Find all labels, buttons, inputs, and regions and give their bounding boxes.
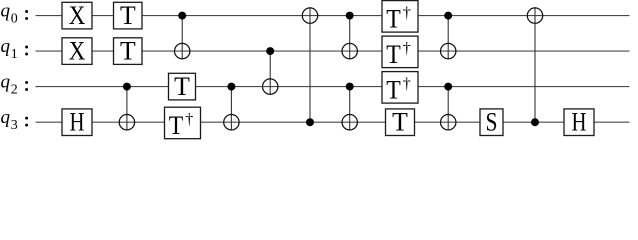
node q3 label bbox=[1, 107, 29, 133]
svg-text:T: T bbox=[120, 1, 136, 30]
svg-text:T: T bbox=[386, 5, 401, 34]
control dot q2 col4 bbox=[227, 83, 235, 91]
gate T q2 col3 bbox=[169, 72, 196, 101]
svg-text:0: 0 bbox=[11, 12, 18, 27]
cnot target q1 col3 bbox=[175, 43, 190, 58]
wire cnot q2-q3 col7 bbox=[349, 87, 351, 131]
cnot target q0 col11 bbox=[527, 8, 542, 23]
wire cnot q3-q0 col11 bbox=[534, 7, 536, 122]
wire q2 bbox=[36, 86, 630, 88]
wire q1 bbox=[36, 50, 630, 52]
gate X q0 col1 bbox=[62, 1, 92, 30]
control dot q2 col7 bbox=[346, 83, 354, 91]
node q2 label bbox=[1, 71, 29, 97]
control dot q1 col5 bbox=[266, 47, 274, 55]
svg-text:T: T bbox=[169, 111, 184, 140]
wire cnot q0-q1 col7 bbox=[349, 16, 351, 60]
cnot target q0 col6 bbox=[302, 8, 317, 23]
svg-text:q: q bbox=[1, 0, 11, 21]
svg-text:1: 1 bbox=[11, 47, 18, 62]
wire cnot q2-q3 col2 bbox=[126, 87, 128, 131]
svg-text:T: T bbox=[386, 40, 401, 69]
cnot target q1 col9 bbox=[441, 43, 456, 58]
wire cnot q0-q1 col3 bbox=[181, 16, 183, 60]
cnot target q3 col2 bbox=[119, 115, 134, 130]
svg-text:S: S bbox=[486, 107, 498, 136]
svg-text:†: † bbox=[403, 40, 411, 57]
wire cnot q2-q3 col9 bbox=[447, 87, 449, 131]
control dot q0 col3 bbox=[178, 12, 186, 20]
control dot q2 col9 bbox=[444, 83, 452, 91]
svg-text:q: q bbox=[1, 36, 11, 57]
svg-text:H: H bbox=[70, 107, 85, 136]
svg-text:X: X bbox=[69, 36, 86, 65]
gate T q1 col2 bbox=[114, 36, 143, 65]
wire cnot q1-q2 col5 bbox=[269, 51, 271, 95]
svg-text:2: 2 bbox=[11, 83, 18, 98]
svg-text:T: T bbox=[120, 36, 136, 65]
gate T q0 col2 bbox=[114, 1, 143, 30]
node q0 label bbox=[1, 0, 29, 26]
wire cnot q0-q1 col9 bbox=[447, 16, 449, 60]
svg-text:†: † bbox=[185, 111, 193, 128]
gate T q3 col8 bbox=[386, 107, 415, 136]
cnot target q2 col5 bbox=[263, 79, 278, 94]
control dot q3 col6 bbox=[306, 118, 314, 126]
cnot target q3 col9 bbox=[441, 115, 456, 130]
control dot q0 col9 bbox=[444, 12, 452, 20]
svg-text:T: T bbox=[386, 76, 401, 105]
control dot q0 col7 bbox=[346, 12, 354, 20]
gate X q1 col1 bbox=[62, 36, 92, 65]
svg-text:q: q bbox=[1, 71, 11, 92]
wire cnot q3-q0 col6 bbox=[309, 7, 311, 122]
gate Tdg q0 col8 bbox=[382, 1, 418, 34]
svg-text:q: q bbox=[1, 107, 11, 128]
gate S q3 col10 bbox=[480, 107, 503, 136]
control dot q2 col2 bbox=[123, 83, 131, 91]
svg-text:T: T bbox=[174, 72, 190, 101]
svg-text:†: † bbox=[403, 5, 411, 22]
gate Tdg q3 col3 bbox=[165, 107, 201, 140]
node q1 label bbox=[1, 36, 29, 62]
gate H q3 col12 bbox=[564, 107, 594, 136]
gate Tdg q1 col8 bbox=[382, 36, 418, 69]
gate H q3 col1 bbox=[62, 107, 92, 136]
control dot q3 col11 bbox=[531, 118, 539, 126]
cnot target q1 col7 bbox=[342, 43, 357, 58]
svg-text:X: X bbox=[69, 1, 86, 30]
cnot target q3 col4 bbox=[224, 115, 239, 130]
svg-text:†: † bbox=[403, 76, 411, 93]
gate Tdg q2 col8 bbox=[382, 72, 418, 105]
wire cnot q2-q3 col4 bbox=[230, 87, 232, 131]
cnot target q3 col7 bbox=[342, 115, 357, 130]
svg-text:3: 3 bbox=[11, 118, 18, 133]
wire q3 bbox=[36, 121, 630, 123]
wire q0 bbox=[36, 15, 630, 17]
svg-text:H: H bbox=[572, 107, 587, 136]
svg-text:T: T bbox=[392, 107, 408, 136]
